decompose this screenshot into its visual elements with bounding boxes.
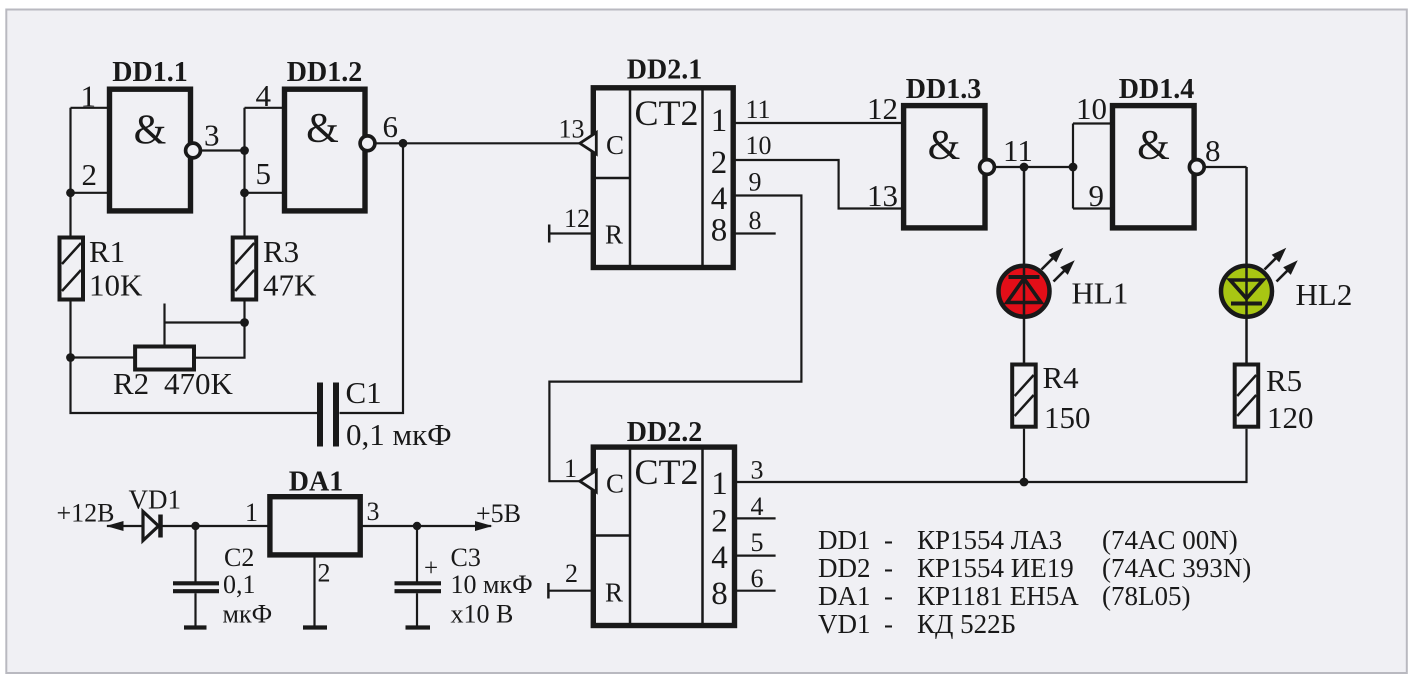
diode VD1 — [143, 512, 161, 541]
node junction pin3-pin4/5 — [240, 146, 249, 155]
svg-text:R5: R5 — [1266, 363, 1302, 398]
svg-text:C: C — [606, 130, 624, 160]
wire C1 right to DD1.2 output — [340, 143, 404, 413]
inversion bubble DD1.1 output — [186, 143, 201, 158]
svg-text:4: 4 — [751, 492, 764, 521]
svg-text:10 мкФ: 10 мкФ — [451, 570, 533, 599]
svg-text:2: 2 — [318, 559, 331, 588]
inversion bubble DD1.4 output — [1189, 160, 1204, 175]
ground bar DA1 — [303, 625, 327, 629]
svg-text:C3: C3 — [451, 543, 481, 572]
emission arrows HL2 — [1265, 251, 1296, 282]
wire DD1.3 output to DD1.4 inputs — [995, 166, 1074, 168]
svg-text:1: 1 — [564, 454, 577, 483]
node junction R3-tap — [240, 318, 249, 327]
svg-text:C: C — [606, 469, 624, 499]
capacitor C1 — [320, 383, 336, 447]
ground bar C3 — [406, 625, 431, 629]
inversion bubble DD1.3 output — [980, 160, 995, 175]
svg-text:10: 10 — [1076, 91, 1107, 126]
wire R2 left — [71, 356, 137, 358]
svg-text:(78L05): (78L05) — [1102, 581, 1190, 611]
wire DD2.2 pin6 stub — [736, 590, 776, 592]
svg-text:DD1.1: DD1.1 — [112, 57, 187, 88]
wire DD1.1 pin1 — [71, 107, 110, 109]
svg-text:DD1.2: DD1.2 — [287, 57, 362, 88]
resistor R4 — [1012, 365, 1035, 427]
svg-text:&: & — [306, 106, 339, 152]
wire bus DD2.2 pin3 to R5 — [736, 429, 1247, 482]
clock triangle DD2.2 C input — [580, 470, 597, 492]
wire DD2.2 pin5 stub — [736, 554, 776, 556]
svg-text:DA1: DA1 — [818, 581, 871, 611]
emission arrows HL1 — [1042, 251, 1073, 282]
svg-text:x10 В: x10 В — [451, 600, 514, 629]
resistor R1 — [60, 238, 84, 300]
svg-text:CT2: CT2 — [634, 452, 698, 492]
arrow left +12V — [106, 521, 124, 531]
svg-text:CT2: CT2 — [634, 93, 698, 133]
wire DD1.4 output to HL2 — [1204, 166, 1246, 168]
svg-text:R: R — [605, 578, 623, 608]
svg-text:0,1 мкФ: 0,1 мкФ — [346, 417, 452, 452]
wire R2 wiper tap — [163, 304, 165, 346]
node junction pin2 — [66, 188, 75, 197]
wire DD2.1 pin9 to DD2.2 C — [549, 196, 801, 482]
svg-text:&: & — [1137, 123, 1170, 169]
wire DD1.1 output pin3 — [201, 149, 245, 151]
svg-text:11: 11 — [746, 95, 771, 124]
svg-text:R4: R4 — [1043, 360, 1080, 395]
svg-text:47K: 47K — [263, 268, 317, 303]
wire R1 bottom to C1 rail — [71, 300, 319, 414]
svg-text:3: 3 — [367, 497, 380, 526]
svg-text:DD2: DD2 — [818, 553, 871, 583]
svg-text:C1: C1 — [346, 375, 382, 410]
svg-text:КР1554 ЛА3: КР1554 ЛА3 — [917, 525, 1062, 555]
svg-text:4: 4 — [711, 540, 728, 576]
svg-text:150: 150 — [1044, 400, 1091, 435]
resistor R5 — [1235, 365, 1259, 427]
capacitor C3 — [395, 526, 442, 626]
svg-text:-: - — [884, 525, 893, 555]
svg-text:DA1: DA1 — [289, 467, 343, 498]
LED HL2 — [1221, 167, 1272, 364]
clock triangle DD2.1 C input — [580, 133, 597, 155]
svg-text:5: 5 — [256, 156, 272, 191]
svg-text:10K: 10K — [89, 268, 143, 303]
svg-text:3: 3 — [751, 456, 764, 485]
node junction C2 — [191, 522, 199, 530]
svg-text:10: 10 — [746, 131, 772, 160]
svg-text:R2: R2 — [113, 366, 149, 401]
ground bar C2 — [184, 625, 207, 629]
svg-text:12: 12 — [867, 91, 898, 126]
svg-text:1: 1 — [245, 498, 258, 527]
capacitor C2 — [173, 526, 219, 626]
LED HL1 — [999, 167, 1050, 364]
arrow right +5V — [475, 521, 493, 531]
wire R2 right up to R3 — [193, 300, 245, 358]
svg-text:470K: 470K — [164, 366, 234, 401]
wire DD2.2 R input with tick — [548, 590, 592, 592]
parts list — [818, 525, 1251, 639]
node junction C3 — [413, 522, 421, 530]
svg-text:120: 120 — [1267, 400, 1314, 435]
svg-text:2: 2 — [565, 559, 578, 588]
svg-text:VD1: VD1 — [129, 485, 182, 515]
svg-text:(74AC 00N): (74AC 00N) — [1102, 525, 1238, 555]
svg-text:R3: R3 — [263, 234, 299, 269]
svg-text:2: 2 — [711, 504, 728, 540]
svg-text:6: 6 — [383, 109, 399, 144]
svg-text:+: + — [424, 555, 438, 582]
regulator DA1 — [270, 467, 360, 555]
svg-text:12: 12 — [564, 204, 590, 233]
svg-text:DD1.4: DD1.4 — [1119, 74, 1194, 105]
svg-text:DD2.2: DD2.2 — [627, 417, 702, 448]
svg-text:R: R — [605, 220, 623, 250]
svg-text:HL1: HL1 — [1072, 276, 1129, 311]
wire R4 bottom to bus — [1023, 429, 1025, 482]
wire DA1 pin2 to ground — [313, 556, 315, 626]
node junction R4-bus — [1020, 478, 1029, 487]
svg-text:C2: C2 — [224, 543, 254, 572]
svg-text:8: 8 — [749, 206, 762, 235]
counter DD2.1 — [592, 55, 733, 268]
svg-text:2: 2 — [82, 157, 98, 192]
wire DD1.2 pin4 — [245, 107, 285, 109]
svg-text:2: 2 — [711, 145, 728, 181]
svg-text:3: 3 — [204, 118, 220, 153]
gate DD1.4 — [1113, 74, 1195, 228]
svg-text:мкФ: мкФ — [223, 600, 273, 629]
svg-text:КР1181 ЕН5А: КР1181 ЕН5А — [917, 581, 1079, 611]
svg-text:13: 13 — [867, 178, 898, 213]
wire DD2.1 pin8 stub — [733, 232, 776, 234]
svg-text:VD1: VD1 — [818, 609, 871, 639]
svg-text:DD1.3: DD1.3 — [906, 74, 981, 105]
node junction pin5-R3 — [240, 188, 249, 197]
svg-text:КД 522Б: КД 522Б — [917, 609, 1016, 639]
resistor R2 — [135, 347, 194, 370]
svg-text:+12В: +12В — [57, 499, 115, 528]
svg-text:0,1: 0,1 — [223, 570, 256, 599]
gate DD1.3 — [904, 74, 985, 228]
wire DD2.1 pin11 to DD1.3 pin12 — [733, 122, 903, 124]
wire DD1.2 pin5 — [245, 192, 285, 194]
svg-text:DD1: DD1 — [818, 525, 871, 555]
svg-text:-: - — [884, 553, 893, 583]
gate DD1.1 — [110, 57, 191, 211]
svg-text:-: - — [884, 581, 893, 611]
svg-text:9: 9 — [749, 168, 762, 197]
wire DD2.1 R input with tick — [549, 232, 592, 234]
svg-text:13: 13 — [559, 115, 585, 144]
svg-text:5: 5 — [751, 528, 764, 557]
wire DD2.2 pin4 stub — [736, 517, 776, 519]
svg-text:8: 8 — [711, 576, 728, 612]
svg-text:-: - — [884, 609, 893, 639]
svg-text:1: 1 — [711, 466, 728, 502]
wire DD1.1 pin2 — [71, 192, 110, 194]
power rail +12V — [107, 525, 270, 527]
svg-text:(74AC 393N): (74AC 393N) — [1102, 553, 1251, 583]
svg-text:11: 11 — [1003, 133, 1033, 168]
wire DA1 output +5V — [361, 525, 491, 527]
node junction R1-R2 — [66, 353, 75, 362]
svg-text:HL2: HL2 — [1296, 277, 1353, 312]
svg-text:8: 8 — [711, 213, 728, 249]
resistor R3 — [233, 238, 257, 300]
gate DD1.2 — [285, 57, 366, 211]
svg-text:&: & — [928, 123, 961, 169]
svg-text:+5В: +5В — [476, 499, 521, 528]
svg-text:DD2.1: DD2.1 — [627, 55, 702, 86]
node junction HL1 branch — [1020, 163, 1029, 172]
svg-text:6: 6 — [751, 564, 764, 593]
svg-text:КР1554 ИЕ19: КР1554 ИЕ19 — [917, 553, 1074, 583]
inversion bubble DD1.2 output — [360, 136, 375, 151]
counter DD2.2 — [592, 417, 735, 626]
wire vertical pin4-pin5 of DD1.2 — [243, 108, 245, 237]
wire left vertical to R1 — [69, 108, 71, 237]
svg-text:1: 1 — [711, 103, 728, 139]
node junction pin6-C1 — [399, 139, 408, 148]
svg-text:R1: R1 — [89, 234, 125, 269]
svg-text:8: 8 — [1205, 133, 1221, 168]
wire DD2.1 pin10 to DD1.3 pin13 — [733, 160, 903, 209]
wire DD1.2 output pin6 to DD2.1 C — [375, 142, 581, 144]
node junction DD1.4 input — [1069, 163, 1078, 172]
svg-text:&: & — [134, 108, 167, 154]
